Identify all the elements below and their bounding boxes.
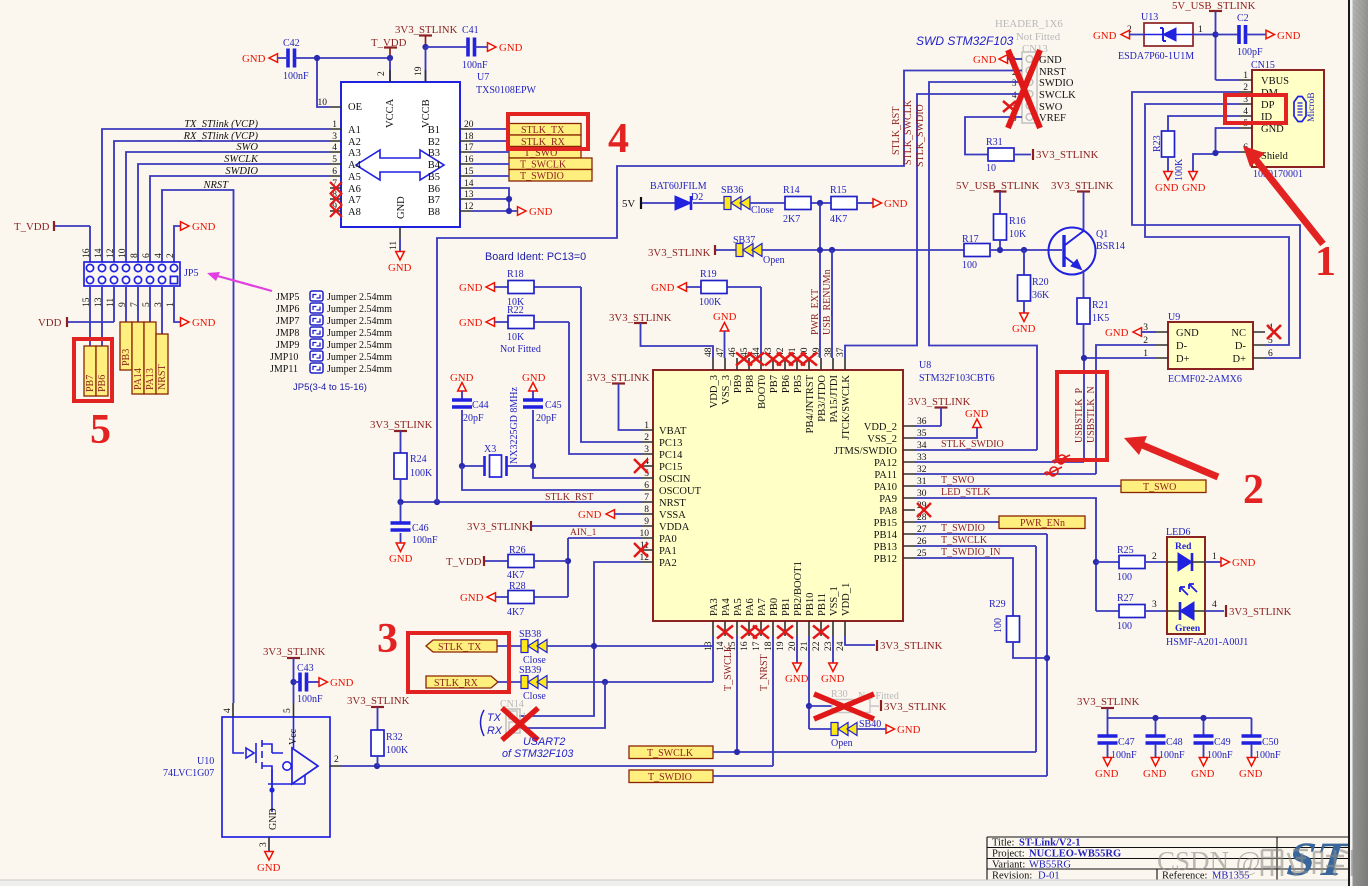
svg-text:USB_RENUMn: USB_RENUMn <box>822 269 833 335</box>
svg-text:GND: GND <box>1176 328 1199 339</box>
svg-text:VDD_3: VDD_3 <box>709 375 720 408</box>
svg-text:TX: TX <box>487 712 502 724</box>
resistor R18 <box>459 269 641 442</box>
wire STLK_RST to NRST pin7 <box>401 501 642 503</box>
no-connect X left pin11 PA1 <box>634 543 648 557</box>
net tag T_SWDIO bottom <box>629 770 713 783</box>
svg-text:T_SWCLK: T_SWCLK <box>941 535 988 546</box>
svg-text:PB5: PB5 <box>793 375 804 393</box>
solder bridge SB38 <box>497 629 547 666</box>
svg-text:R14: R14 <box>783 185 800 196</box>
svg-text:10: 10 <box>986 163 996 174</box>
svg-text:PA4: PA4 <box>721 598 732 616</box>
net tag PB3 <box>120 322 132 370</box>
svg-text:R29: R29 <box>989 599 1006 610</box>
svg-text:OSCIN: OSCIN <box>659 474 691 485</box>
svg-text:C49: C49 <box>1214 737 1231 748</box>
U7 pin stubs left <box>330 107 341 211</box>
ground U10 pin3 <box>268 850 270 852</box>
diode D2 BAT60JFILM <box>642 181 724 210</box>
resistor R19 <box>651 269 761 358</box>
svg-text:VDDA: VDDA <box>659 522 690 533</box>
svg-text:B4: B4 <box>428 160 441 171</box>
svg-text:R19: R19 <box>700 269 717 280</box>
svg-text:SWD STM32F103: SWD STM32F103 <box>916 34 1014 48</box>
svg-text:D-: D- <box>1235 341 1247 352</box>
wire to CN14 RX <box>519 682 605 728</box>
svg-text:T_VDD: T_VDD <box>446 556 482 568</box>
svg-text:3V3_STLINK: 3V3_STLINK <box>263 646 326 658</box>
svg-text:20pF: 20pF <box>463 413 484 424</box>
wire AIN_1 to PA0 <box>568 538 641 597</box>
svg-text:4K7: 4K7 <box>507 570 524 581</box>
svg-text:3: 3 <box>259 842 269 847</box>
svg-text:B8: B8 <box>428 207 440 218</box>
node OE tap <box>314 55 320 61</box>
no-connect X U9 pin4 <box>1267 325 1281 339</box>
svg-text:10K: 10K <box>507 332 525 343</box>
green led symbol <box>1180 584 1197 595</box>
wire T_SWCLK net <box>713 546 1036 752</box>
svg-text:Jumper 2.54mm: Jumper 2.54mm <box>327 340 392 351</box>
svg-text:C46: C46 <box>412 523 429 534</box>
ground U7 pin11 <box>399 239 401 251</box>
svg-text:1: 1 <box>1212 552 1217 562</box>
JP5 pin numbers bottom <box>82 297 176 307</box>
svg-text:GND: GND <box>651 282 675 294</box>
svg-text:5V_USB_STLINK: 5V_USB_STLINK <box>956 180 1040 192</box>
wire PB7 tag feed <box>89 287 91 346</box>
solder bridge SB39 <box>498 665 547 702</box>
net tag STLK_TX at U7 <box>509 124 581 137</box>
resistor R25 <box>1096 545 1167 583</box>
svg-text:GND: GND <box>460 592 484 604</box>
svg-text:HSMF-A201-A00J1: HSMF-A201-A00J1 <box>1166 637 1248 648</box>
svg-text:GND: GND <box>1191 768 1215 780</box>
svg-text:100nF: 100nF <box>297 694 323 705</box>
JP5 pin numbers top <box>82 248 176 258</box>
svg-text:GND: GND <box>459 317 483 329</box>
svg-text:of STM32F103: of STM32F103 <box>502 748 573 760</box>
svg-text:A5: A5 <box>348 172 361 183</box>
svg-text:USBSTLK_N: USBSTLK_N <box>1086 386 1097 443</box>
power 3V3_STLINK VDDA pin9 <box>467 521 641 533</box>
U8 right pin names <box>834 422 898 565</box>
U8 left pin stubs <box>641 430 653 562</box>
svg-text:GND: GND <box>1261 124 1284 135</box>
svg-text:3V3_STLINK: 3V3_STLINK <box>347 695 410 707</box>
svg-text:Variant:: Variant: <box>992 860 1025 871</box>
svg-text:D+: D+ <box>1232 354 1246 365</box>
U8 bottom pin names rotated <box>709 561 852 616</box>
svg-text:PC15: PC15 <box>659 462 682 473</box>
svg-text:3V3_STLINK: 3V3_STLINK <box>884 701 947 713</box>
wire PB6 tag feed <box>101 287 103 346</box>
resistor R32 <box>371 730 409 766</box>
svg-text:1: 1 <box>1198 25 1203 35</box>
svg-text:STLK_RST: STLK_RST <box>891 107 902 155</box>
svg-text:C43: C43 <box>297 663 314 674</box>
wire U9 D+ to USBSTLK_P <box>915 358 1156 462</box>
svg-text:GND: GND <box>522 372 546 384</box>
wire U9 D- to USBSTLK_N <box>915 345 1156 474</box>
svg-text:Jumper 2.54mm: Jumper 2.54mm <box>327 364 392 375</box>
power VDD left <box>38 287 114 329</box>
svg-text:5: 5 <box>332 155 337 165</box>
ground up at VSS_3 pin47 <box>713 311 737 358</box>
resistor R14 <box>750 185 831 225</box>
wire CN15 DM to U9 D+ <box>1132 92 1300 358</box>
svg-text:U13: U13 <box>1141 12 1158 23</box>
wire pin25 to R29 <box>915 558 1013 616</box>
svg-text:GND: GND <box>713 311 737 323</box>
svg-text:MicroB: MicroB <box>1307 92 1317 122</box>
capacitor C45 <box>522 372 562 466</box>
svg-text:PB3/JTDO: PB3/JTDO <box>817 375 828 422</box>
svg-text:VCCA: VCCA <box>385 98 396 128</box>
svg-text:GND: GND <box>268 808 279 830</box>
svg-text:T_NRST: T_NRST <box>759 654 770 691</box>
connector CN14 not fitted <box>500 699 527 733</box>
wire C42 to VCCA junction <box>278 57 391 59</box>
svg-text:GND: GND <box>1182 182 1206 194</box>
svg-text:3: 3 <box>1012 78 1017 88</box>
svg-text:VDD_2: VDD_2 <box>864 422 897 433</box>
svg-text:B6: B6 <box>428 184 440 195</box>
annotation magenta arrow to JP5 <box>207 272 272 291</box>
svg-text:PWR_EXT: PWR_EXT <box>810 289 821 335</box>
wire SWO net <box>126 152 330 262</box>
U10 pin stubs <box>233 703 341 850</box>
svg-text:C42: C42 <box>283 38 300 49</box>
svg-text:6: 6 <box>332 167 337 177</box>
no-connect X top pins 46-44 <box>736 353 752 366</box>
svg-text:9: 9 <box>644 517 649 527</box>
svg-text:PA10: PA10 <box>874 482 897 493</box>
svg-text:VSSA: VSSA <box>659 510 686 521</box>
svg-text:6: 6 <box>644 481 649 491</box>
svg-text:C48: C48 <box>1166 737 1183 748</box>
internals <box>292 748 318 784</box>
U7 pin names <box>348 98 441 219</box>
svg-text:D2: D2 <box>691 192 703 203</box>
svg-text:A6: A6 <box>348 184 361 195</box>
power 3V3_STLINK Q1 <box>1051 180 1114 231</box>
resistor R24 <box>394 453 433 502</box>
svg-text:PB8: PB8 <box>745 375 756 393</box>
annotation X over CN13 <box>1008 50 1040 128</box>
svg-text:PC14: PC14 <box>659 450 683 461</box>
annotation arrow 2 <box>1124 436 1218 477</box>
wire SWDIO net <box>150 176 330 262</box>
svg-text:B2: B2 <box>428 137 440 148</box>
svg-text:PA3: PA3 <box>709 598 720 616</box>
power 3V3_STLINK pin36 <box>908 396 971 426</box>
svg-text:GND: GND <box>821 673 845 685</box>
svg-text:1: 1 <box>1315 239 1336 285</box>
svg-text:Close: Close <box>523 691 546 702</box>
svg-text:GND: GND <box>884 198 908 210</box>
svg-text:T_SWDIO: T_SWDIO <box>648 772 692 783</box>
chip U9 ECMF02 <box>1143 312 1273 385</box>
svg-text:GND: GND <box>1277 30 1301 42</box>
signal labels to JP5 <box>183 119 259 191</box>
wire SB39 to PA3 vertical <box>547 646 713 682</box>
svg-text:C44: C44 <box>472 400 489 411</box>
svg-text:STLK_SWDIO: STLK_SWDIO <box>941 439 1004 450</box>
svg-text:USBSTLK_P: USBSTLK_P <box>1074 388 1085 443</box>
svg-text:8: 8 <box>130 253 140 258</box>
svg-text:Jumper 2.54mm: Jumper 2.54mm <box>327 292 392 303</box>
capacitor C47 <box>1095 736 1137 780</box>
svg-text:T_SWCLK: T_SWCLK <box>647 748 694 759</box>
svg-text:X3: X3 <box>484 444 496 455</box>
wire RX net <box>114 141 330 262</box>
ground LED pin1 <box>1205 552 1256 569</box>
capacitor C42 <box>242 38 309 82</box>
svg-text:PB2/BOOT1: PB2/BOOT1 <box>793 561 804 616</box>
svg-text:11: 11 <box>106 298 116 307</box>
svg-text:JMP10: JMP10 <box>270 352 298 363</box>
svg-text:T_SWO: T_SWO <box>941 475 974 486</box>
svg-text:VDD: VDD <box>38 317 62 329</box>
wire TX net <box>102 129 330 262</box>
wire crystal to OSCIN <box>533 466 641 478</box>
svg-text:2: 2 <box>166 253 176 258</box>
ground pin35 <box>915 408 989 438</box>
svg-text:JMP6: JMP6 <box>276 304 299 315</box>
svg-text:JMP8: JMP8 <box>276 328 299 339</box>
svg-text:GND: GND <box>192 317 216 329</box>
svg-text:STLK_RX: STLK_RX <box>434 678 479 689</box>
capacitor C41 <box>426 25 523 71</box>
svg-text:D-: D- <box>1176 341 1188 352</box>
svg-text:3: 3 <box>1152 600 1157 610</box>
svg-text:36K: 36K <box>1032 290 1050 301</box>
svg-text:C2: C2 <box>1237 13 1249 24</box>
svg-text:GND: GND <box>257 862 281 874</box>
net tag PB7 <box>84 346 96 396</box>
svg-text:3V3_STLINK: 3V3_STLINK <box>1077 696 1140 708</box>
svg-text:20pF: 20pF <box>536 413 557 424</box>
power T_VDD <box>371 37 407 58</box>
svg-text:3V3_STLINK: 3V3_STLINK <box>880 640 943 652</box>
ground VSSA pin8 <box>578 509 641 521</box>
svg-text:CN13: CN13 <box>1022 43 1048 55</box>
svg-text:5: 5 <box>283 708 293 713</box>
svg-text:74LVC1G07: 74LVC1G07 <box>163 768 214 779</box>
svg-text:GND: GND <box>1012 323 1036 335</box>
annotation box 3 <box>408 633 509 692</box>
svg-text:A3: A3 <box>348 148 361 159</box>
svg-text:A2: A2 <box>348 137 361 148</box>
resistor R21 <box>1077 298 1109 358</box>
svg-text:4: 4 <box>1012 90 1017 100</box>
svg-text:JMP9: JMP9 <box>276 340 299 351</box>
svg-text:GND: GND <box>1105 327 1129 339</box>
svg-text:14: 14 <box>94 248 104 258</box>
net tag PA14 <box>132 322 144 394</box>
svg-text:SB38: SB38 <box>519 629 541 640</box>
svg-text:3V3_STLINK: 3V3_STLINK <box>587 372 650 384</box>
power 3V3_STLINK to VDD_3 pin48 <box>609 312 713 358</box>
svg-text:R16: R16 <box>1009 216 1026 227</box>
svg-text:100: 100 <box>962 260 977 271</box>
no-connect X bottom pins 14,16,17,19,22 <box>717 626 733 639</box>
svg-text:PA1: PA1 <box>659 546 677 557</box>
U8 left pin names <box>659 426 702 569</box>
svg-text:2: 2 <box>377 71 387 76</box>
svg-text:PA2: PA2 <box>659 558 677 569</box>
svg-text:T_SWCLK: T_SWCLK <box>723 644 734 691</box>
wire T_SWDIO net <box>713 534 1047 776</box>
svg-text:STLK_RST: STLK_RST <box>545 492 593 503</box>
svg-text:10K: 10K <box>1009 229 1027 240</box>
svg-text:4: 4 <box>1212 600 1217 610</box>
svg-text:TXS0108EPW: TXS0108EPW <box>476 85 537 96</box>
svg-text:4: 4 <box>608 116 629 162</box>
resistor R23 <box>1152 131 1185 194</box>
wire CN15 ID to R23 <box>1168 116 1240 131</box>
svg-text:100nF: 100nF <box>412 535 438 546</box>
svg-text:38: 38 <box>824 347 834 357</box>
svg-text:D+: D+ <box>1176 354 1190 365</box>
svg-text:VDD_1: VDD_1 <box>841 583 852 616</box>
capacitor C48 <box>1143 736 1185 780</box>
svg-text:100nF: 100nF <box>1207 750 1233 761</box>
LED LED6 dual <box>1166 527 1248 648</box>
svg-text:NRST: NRST <box>659 498 686 509</box>
svg-text:C47: C47 <box>1118 737 1135 748</box>
U8 top pin stubs <box>713 358 845 370</box>
svg-text:3V3_STLINK: 3V3_STLINK <box>648 247 711 259</box>
resistor R31 <box>986 137 1099 174</box>
svg-text:4: 4 <box>332 143 337 153</box>
svg-text:100: 100 <box>1117 621 1132 632</box>
svg-text:1: 1 <box>166 302 176 307</box>
svg-text:PB9: PB9 <box>733 375 744 393</box>
no-connect X left pin4 PC15 <box>634 459 648 473</box>
svg-text:100pF: 100pF <box>1237 47 1263 58</box>
svg-text:Board Ident: PC13=0: Board Ident: PC13=0 <box>485 251 586 263</box>
svg-text:100nF: 100nF <box>283 71 309 82</box>
svg-text:A1: A1 <box>348 125 361 136</box>
svg-text:Green: Green <box>1175 624 1201 634</box>
svg-text:GND: GND <box>1039 55 1062 66</box>
svg-text:Close: Close <box>751 205 774 216</box>
svg-text:PB14: PB14 <box>874 530 898 541</box>
svg-text:GND: GND <box>242 53 266 65</box>
wire PA2 down <box>519 562 641 716</box>
wire CN15 VBUS <box>1216 79 1241 81</box>
svg-text:3V3_STLINK: 3V3_STLINK <box>1036 149 1099 161</box>
svg-text:BAT60JFILM: BAT60JFILM <box>650 181 707 192</box>
svg-text:VSS_3: VSS_3 <box>721 375 732 405</box>
U7 pin numbers <box>318 66 474 250</box>
svg-text:RX: RX <box>487 725 503 737</box>
net tag STLK_TX arrow left <box>426 640 497 653</box>
capacitor C50 <box>1239 736 1281 780</box>
wire OE tap <box>317 58 330 107</box>
net tag PA13 <box>144 322 156 394</box>
svg-text:PB1: PB1 <box>781 598 792 616</box>
svg-text:R18: R18 <box>507 269 524 280</box>
wire PA13 tag feed <box>149 287 151 322</box>
power 3V3_STLINK R32 <box>347 695 410 730</box>
svg-text:C45: C45 <box>545 400 562 411</box>
svg-text:PA12: PA12 <box>874 458 897 469</box>
svg-text:GND: GND <box>459 282 483 294</box>
svg-text:Title:: Title: <box>992 838 1014 849</box>
svg-text:T_SWDIO: T_SWDIO <box>941 523 985 534</box>
svg-text:Jumper 2.54mm: Jumper 2.54mm <box>327 328 392 339</box>
power 3V3_STLINK C47 bank <box>1077 696 1252 736</box>
svg-text:1: 1 <box>332 120 337 130</box>
annotation X over CN14 <box>502 708 538 740</box>
svg-text:100: 100 <box>1117 572 1132 583</box>
annotation X over R30 <box>814 694 874 719</box>
svg-text:PB0: PB0 <box>769 598 780 616</box>
wire VCCB pin19 <box>425 47 427 82</box>
svg-text:U8: U8 <box>919 360 931 371</box>
wire SB38 to PA3 <box>547 636 713 646</box>
U8 bottom pin numbers rotated <box>704 641 846 651</box>
jumper list JMP5-JMP11 <box>270 292 392 375</box>
svg-text:VBUS: VBUS <box>1261 76 1289 87</box>
svg-text:JP5(3-4 to 15-16): JP5(3-4 to 15-16) <box>293 382 367 393</box>
svg-text:GND: GND <box>396 196 407 219</box>
wire B6 B7 B8 ground <box>472 188 518 211</box>
svg-text:PB6: PB6 <box>781 375 792 393</box>
svg-text:ECMF02-2AMX6: ECMF02-2AMX6 <box>1168 374 1242 385</box>
svg-text:5V: 5V <box>622 198 635 210</box>
svg-text:PA8: PA8 <box>879 506 897 517</box>
svg-text:100nF: 100nF <box>1159 750 1185 761</box>
annotation arrow 1 <box>1243 146 1323 244</box>
ST logo <box>1281 832 1359 886</box>
resistor R22 <box>459 305 641 454</box>
wire SWCLK net <box>138 164 330 262</box>
svg-text:GND: GND <box>897 724 921 736</box>
diode U13 ESDA7P60 <box>1093 12 1215 62</box>
svg-text:2K7: 2K7 <box>783 214 800 225</box>
wire CN15 DP to U9 D- <box>1145 104 1289 345</box>
wire STLK_SWCLK from CN13 <box>845 94 1022 358</box>
svg-text:3V3_STLINK: 3V3_STLINK <box>1051 180 1114 192</box>
ground JP5 bottom right <box>174 287 181 322</box>
ground CN13 pin1 <box>973 54 1022 66</box>
U7 pin stubs right <box>460 129 472 211</box>
svg-text:C50: C50 <box>1262 737 1279 748</box>
svg-text:R31: R31 <box>986 137 1003 148</box>
svg-text:PA9: PA9 <box>879 494 897 505</box>
svg-text:R25: R25 <box>1117 545 1134 556</box>
svg-text:GND: GND <box>1095 768 1119 780</box>
capacitor C2 <box>1216 13 1301 58</box>
svg-text:5: 5 <box>90 407 111 453</box>
U8 right pin stubs <box>903 426 915 558</box>
svg-text:Shield: Shield <box>1261 151 1289 162</box>
node R14/R15 <box>817 200 823 206</box>
U8 bottom pin stubs <box>713 621 845 636</box>
net tag STLK_RX arrow right <box>426 676 498 689</box>
svg-text:2: 2 <box>1152 552 1157 562</box>
svg-text:3: 3 <box>644 445 649 455</box>
svg-text:PB13: PB13 <box>874 542 897 553</box>
MCU U8 STM32F103CBT6 body <box>653 370 903 621</box>
wire LED_STLK <box>915 498 1096 611</box>
svg-text:PA14: PA14 <box>133 368 144 390</box>
